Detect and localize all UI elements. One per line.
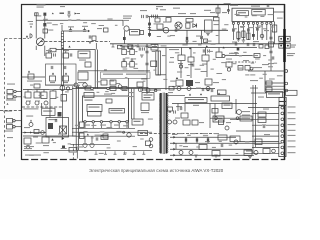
ground G11 <box>194 155 198 157</box>
label speckle 33 <box>222 79 226 80</box>
connector pin P2 <box>285 82 288 85</box>
resistor R707 <box>63 53 69 58</box>
label cn mid4 <box>264 134 270 135</box>
IC101 pin 3 <box>100 121 102 123</box>
wire C0 bottom <box>45 84 80 86</box>
label under snubber b <box>30 85 33 86</box>
wire C2 s4 <box>52 90 54 92</box>
label speckle 102 <box>229 145 232 146</box>
ground stub tick 2 <box>104 151 107 154</box>
label C717 r <box>135 64 137 65</box>
wire C3 r2 <box>131 89 133 120</box>
label VR701 <box>48 30 53 31</box>
label CN901 pin 2 <box>288 112 296 113</box>
wire C0 left link <box>22 76 46 78</box>
IC201 pin 1 <box>232 22 234 24</box>
label speckle 58 <box>116 83 120 84</box>
label speckle 92 <box>124 152 127 153</box>
wire C5 v2 <box>214 104 216 122</box>
label L1 jack2 <box>3 111 12 112</box>
label speckle 103 <box>236 153 239 154</box>
label IC801 <box>224 3 231 4</box>
wire B1 s2 <box>91 136 93 143</box>
label speckle 17 <box>185 67 189 68</box>
capacitor C710 <box>51 66 53 69</box>
resistor R138 <box>230 136 240 142</box>
node N2 <box>107 87 109 89</box>
label C716 r <box>127 64 129 65</box>
relay coil with X <box>60 126 67 134</box>
wire col v1b <box>127 78 129 88</box>
label T6 e <box>253 41 259 42</box>
IC201 sub-box 2 <box>252 9 265 15</box>
label block right of adapter <box>242 118 251 119</box>
resistor R914 <box>168 107 173 111</box>
wire C0 v1 <box>35 46 37 50</box>
node T4 <box>227 9 229 11</box>
wire R807 drop <box>218 21 220 44</box>
resistor R810 <box>178 55 185 61</box>
label speckle 71 <box>111 93 115 94</box>
resistor R808 <box>272 25 277 32</box>
label cn mid3 <box>262 124 266 125</box>
IC101 pin 1 lead <box>84 123 86 128</box>
ground G4 <box>185 41 189 43</box>
ground G6 <box>237 39 241 41</box>
resistor R206 <box>266 81 272 85</box>
wire B1 bus <box>23 135 76 137</box>
label rect strip a <box>103 74 123 75</box>
IC101 pin 2 <box>92 121 94 123</box>
wire M1 lower <box>148 88 215 90</box>
capacitor C705 polarized <box>83 28 86 32</box>
transistor Q308 <box>26 145 30 149</box>
label T4 u2 <box>160 9 166 10</box>
wire rail 1 <box>170 136 236 138</box>
wire B1 s1 <box>84 136 86 143</box>
label prot <box>188 99 204 100</box>
resistor R304 <box>50 91 56 99</box>
label R708 <box>50 82 55 83</box>
label speckle 69 <box>97 92 100 93</box>
label R716 <box>78 82 86 83</box>
wire C1 top <box>120 45 150 47</box>
wire IC201 left drop <box>228 4 230 14</box>
capacitor C722b <box>152 15 154 18</box>
connector CN901 pin 4 <box>281 124 284 127</box>
IC201 pin 9 <box>270 22 272 24</box>
transistor Q303 <box>44 101 48 105</box>
wire R1 mid <box>225 55 252 57</box>
capacitor C310 <box>55 119 57 122</box>
switch block S1 <box>222 103 232 109</box>
capacitor C706 <box>148 28 151 30</box>
label standby2 <box>95 135 103 136</box>
label C2b <box>35 101 40 102</box>
label cn mid2 <box>263 109 269 110</box>
transistor Q811 <box>177 87 181 91</box>
label speckle 97 <box>187 135 191 136</box>
label speckle 84 <box>61 148 67 149</box>
capacitor C207 <box>247 43 249 46</box>
capacitor C203 <box>233 28 235 31</box>
label R706 <box>46 50 52 51</box>
block above transformer <box>169 86 174 90</box>
wire main vert pair a <box>94 50 96 89</box>
label right mid c <box>262 64 269 65</box>
warning triangle plug <box>26 35 28 37</box>
label speckle 63 <box>32 89 35 90</box>
capacitor C125 <box>185 138 187 141</box>
label speckle 79 <box>123 125 128 126</box>
label opto2 <box>140 132 146 133</box>
transistor Q904 <box>168 120 172 124</box>
resistor R812 <box>202 55 209 61</box>
label speckle 88 <box>91 137 94 138</box>
node M1 <box>222 55 225 58</box>
warning triangle A8 <box>189 94 191 96</box>
connector CN901 upper box 2 <box>279 102 286 106</box>
wire boundary dash mid <box>140 133 214 135</box>
label relay text block <box>123 16 132 22</box>
label speckle 25 <box>163 79 167 80</box>
capacitor C811 <box>208 49 210 52</box>
label C3r <box>128 92 134 93</box>
label rail1 <box>178 133 183 134</box>
connector CN901 pin 1 <box>281 106 284 109</box>
capacitor C712 <box>123 46 125 49</box>
wire J4 stub <box>15 126 21 128</box>
relay big box <box>46 118 69 138</box>
wire T2 riser <box>61 25 63 31</box>
connector CN901 pin 3 <box>281 118 284 121</box>
connector CN901 pin 8 <box>281 146 284 149</box>
label T4 u3 <box>173 8 180 9</box>
transistor Q117 <box>83 143 87 147</box>
warning input <box>30 26 32 28</box>
border frame left edge <box>21 4 23 160</box>
label B1 low <box>25 155 41 156</box>
label speckle 104 <box>245 141 250 142</box>
transistor Q708 <box>118 85 122 89</box>
resistor R212 <box>245 66 250 71</box>
label C3r2 <box>128 96 134 97</box>
label speckle 18 <box>193 52 196 53</box>
label M1 r1 <box>178 63 183 64</box>
wire main left vert b <box>77 86 79 150</box>
mains plug pin 1 dot <box>280 38 282 40</box>
label S1 <box>224 105 231 106</box>
label speckle 83 <box>53 142 56 143</box>
label speckle 94 <box>140 139 144 140</box>
resistor R908 <box>212 109 218 114</box>
label speckle 57 <box>109 81 114 82</box>
label bridge <box>190 13 196 14</box>
resistor R913 <box>263 149 270 154</box>
transistor Q706 <box>138 87 142 91</box>
capacitor C901 <box>202 88 204 91</box>
wire C3 below IC 3 <box>72 135 135 137</box>
posistor block tall <box>156 51 158 75</box>
resistor R305 <box>61 95 67 102</box>
label speckle 31 <box>211 69 214 70</box>
label speckle 105 <box>28 21 33 22</box>
arrow A3 <box>88 30 90 32</box>
jack J4 body <box>7 125 13 130</box>
label T4 d <box>170 35 175 36</box>
transistor Q703 <box>74 83 78 87</box>
wire M1 v2 <box>180 61 182 78</box>
mains plug pin 2 <box>286 36 291 41</box>
label T4 c <box>163 22 168 23</box>
label L1 jack2c <box>7 137 13 138</box>
wire C5 drop2 <box>184 104 186 112</box>
bridge rectifier BR801 <box>175 22 182 29</box>
resistor R805 <box>157 24 163 29</box>
capacitor C717a <box>131 58 133 61</box>
capacitor C906 <box>263 125 265 128</box>
ground G7 <box>242 40 246 42</box>
warning LF <box>52 12 54 14</box>
capacitor C902 <box>207 88 209 91</box>
wire M1 stub r812 <box>205 48 207 56</box>
wire dash aux <box>228 61 256 63</box>
jack J2 pin <box>14 96 16 98</box>
capacitor C715 can <box>130 49 135 54</box>
label R1 mid <box>229 53 239 54</box>
wire secondary bus <box>150 29 228 31</box>
top right block <box>267 92 283 98</box>
label B2 <box>152 46 157 47</box>
label T4 x1 <box>210 12 215 13</box>
label in relay <box>49 119 57 120</box>
diode D803 big <box>193 24 197 28</box>
label speckle 108 <box>52 24 58 25</box>
IC101 pin 1 <box>84 121 86 123</box>
diode rail D2 <box>173 142 175 145</box>
wire R804 drop <box>217 5 219 17</box>
posistor Q701 circle <box>36 38 44 46</box>
IC101 pin 6 lead <box>126 123 128 128</box>
bus tick 3 <box>137 44 140 47</box>
capacitor C905 <box>180 107 182 110</box>
wire mid bus <box>148 47 257 49</box>
wire C2 top bus <box>23 89 72 91</box>
label in box2 <box>253 11 262 12</box>
label speckle 30 <box>201 71 207 72</box>
wire C3 below IC 2 <box>72 131 152 133</box>
label speckle 72 <box>120 89 126 90</box>
diode D705 <box>65 72 67 74</box>
label C714 r <box>127 51 129 52</box>
label adapter <box>215 118 223 119</box>
label speckle 53 <box>134 68 139 69</box>
IC201 sub-box 1 <box>237 11 249 16</box>
wire pin drop x262.1 <box>261 25 263 41</box>
resistor R704 <box>92 36 96 41</box>
diode rail D1 <box>173 136 175 139</box>
wire B2 v1 <box>175 143 177 149</box>
label T4 x2 <box>222 12 227 13</box>
label speckle 91 <box>117 141 121 142</box>
warning triangle A10 <box>218 93 220 95</box>
label top right block <box>268 93 280 94</box>
block B2 <box>151 45 158 51</box>
resistor R911 <box>192 120 198 125</box>
resistor R101t <box>85 86 91 90</box>
label CN901 pin 4 <box>288 124 296 125</box>
label speckle 20 <box>208 51 213 52</box>
label L1 jack1 <box>7 84 15 85</box>
degauss coil ladder ticks <box>61 34 63 46</box>
capacitor C211 <box>253 43 255 46</box>
label speckle 37 <box>251 63 255 64</box>
jack J1 pin <box>14 90 16 92</box>
wire pin drop x266.8 <box>266 25 268 41</box>
label speckle 125 <box>248 27 253 28</box>
diode D703 dark <box>148 23 151 26</box>
label speckle 43 <box>238 68 243 69</box>
IC101 inner box out <box>109 109 125 114</box>
resistor R811 <box>188 57 194 62</box>
label speckle 59 <box>125 77 128 78</box>
label input c <box>30 24 34 25</box>
capacitor C709 <box>70 53 72 56</box>
wire S701 link <box>56 49 96 51</box>
label speckle 15 <box>169 62 174 63</box>
label speckle 99 <box>203 135 208 136</box>
varistor VR701 <box>43 29 48 33</box>
label speckle 42 <box>233 62 237 65</box>
label speckle 34 <box>231 53 234 54</box>
label LF text <box>60 13 65 15</box>
label C5a <box>196 88 201 89</box>
node N3 <box>154 89 157 92</box>
dark part in relay <box>48 123 53 129</box>
label M1 low1 <box>195 82 200 83</box>
block on pair 1 <box>80 122 85 128</box>
warning triangle T4a <box>156 8 158 10</box>
arrow LF <box>75 12 77 14</box>
label speckle 67 <box>65 91 69 92</box>
diode rail D4 <box>173 154 175 157</box>
transistor Q813 <box>206 87 210 91</box>
label T6 c <box>264 30 269 31</box>
wire indicator 1 <box>248 70 284 72</box>
diode D301 <box>51 138 54 140</box>
label C2 mid in <box>43 111 52 112</box>
label selector <box>80 53 88 54</box>
label speckle 117 <box>235 14 240 15</box>
label speckle 45 <box>250 74 255 75</box>
label speckle 7 <box>198 44 201 45</box>
capacitor C131 <box>272 56 274 59</box>
diode D810 <box>176 77 178 79</box>
wire C2 s1 <box>27 90 29 93</box>
IC101 pin 5 <box>118 121 120 123</box>
label speckle 56 <box>97 81 102 82</box>
warning triangle L1 <box>7 103 9 105</box>
capacitor C717 can <box>130 62 135 67</box>
resistor R202 <box>242 31 245 38</box>
diode D302 <box>25 131 27 133</box>
wire right pair a <box>252 85 254 153</box>
border frame bottom edge dashed <box>22 159 286 161</box>
wire C1 low <box>76 87 148 89</box>
label speckle 3 <box>167 36 170 37</box>
label speckle 22 <box>221 62 225 63</box>
label CN901 pin 7 <box>288 140 296 141</box>
capacitor C704 polarized <box>69 28 72 32</box>
resistor R310 <box>42 137 49 143</box>
IC101 pin 6 <box>126 121 128 123</box>
jack J3 body <box>7 119 13 124</box>
arrow mains <box>62 137 65 140</box>
label speckle 4 <box>176 25 179 26</box>
wire pin drop x248.4 <box>247 25 249 41</box>
capacitor C719 <box>145 51 148 53</box>
transformer T901 core <box>162 93 164 155</box>
wire rail link3 <box>207 137 209 143</box>
transistor Q707 <box>146 88 150 92</box>
wire pin drop x243.4 <box>242 25 244 41</box>
wire cn3 <box>230 118 279 120</box>
block B3 <box>151 61 157 67</box>
label indicator <box>252 67 262 68</box>
wire C5 bus <box>172 103 257 105</box>
transistor Q902 <box>225 126 229 130</box>
protection block <box>185 98 207 103</box>
wire dash-dot boundary top <box>40 41 110 43</box>
protection block 2 <box>211 96 230 101</box>
label lamp2 <box>250 88 258 89</box>
label speckle 10 <box>216 35 219 36</box>
label speckle 87 <box>84 151 88 152</box>
wire pin drop x270.8 <box>270 25 272 41</box>
capacitor C810 <box>203 49 205 52</box>
power cord thick bar <box>283 29 286 62</box>
ground G1 <box>67 15 71 17</box>
label right of PC <box>148 119 153 120</box>
label T901 <box>168 92 173 93</box>
label speckle 41 <box>274 63 278 64</box>
wire mains dash-dot entry <box>5 38 30 40</box>
label speckle 120 <box>260 16 264 17</box>
resistor R209 <box>254 54 260 58</box>
label speckle 49 <box>277 75 283 76</box>
label speckle 14 <box>161 45 167 46</box>
label speckle 28 <box>187 75 190 76</box>
mains plug half-circle <box>30 34 32 38</box>
label reg1 <box>144 95 153 96</box>
node C3 <box>123 131 125 133</box>
label speckle 76 <box>100 132 105 133</box>
label speckle 119 <box>252 15 257 16</box>
label speckle 12 <box>224 24 228 25</box>
label speckle 123 <box>232 28 236 29</box>
label speckle 21 <box>213 59 216 60</box>
resistor R201 <box>237 32 240 39</box>
label M1 r2 <box>188 64 193 65</box>
wire col v1 <box>127 46 129 49</box>
wire T2 mid <box>62 30 88 32</box>
connector CN901 pin 6 <box>281 135 284 138</box>
label C705 <box>82 26 88 27</box>
wire C5 v3 <box>235 99 237 114</box>
jack J3 pin <box>13 120 15 122</box>
resistor R806 <box>186 23 190 28</box>
ground G13 <box>248 157 252 159</box>
